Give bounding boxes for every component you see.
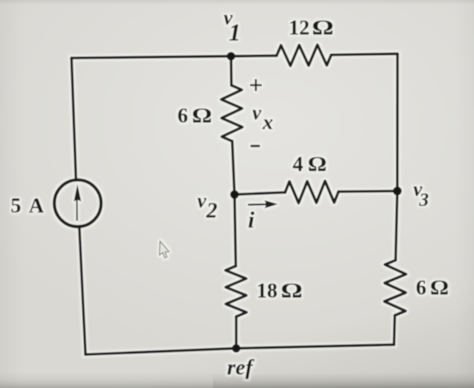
svg-text:2: 2 [205, 197, 217, 222]
svg-text:Ω: Ω [281, 279, 303, 302]
svg-text:ref: ref [227, 354, 255, 379]
wire left side lower (current source to BL corner) [79, 227, 85, 355]
node ref (dot) [232, 344, 241, 353]
wire 4-ohm right to node v3 [339, 190, 398, 193]
wire 18-ohm to ref node [235, 317, 238, 349]
resistor R2 6-ohm (middle vertical) [221, 85, 242, 141]
svg-text:i: i [248, 207, 255, 232]
current source arrow [74, 184, 81, 221]
current arrow i (near v2) [248, 200, 278, 208]
wire top-left segment (TL corner to node v1 to 12-ohm resistor) [72, 56, 277, 58]
resistor R1 12-ohm (top) [277, 45, 332, 66]
svg-text:Ω: Ω [312, 16, 334, 39]
label minus (vx polarity) [251, 145, 261, 147]
svg-text:Ω: Ω [192, 104, 212, 128]
svg-text:v: v [252, 102, 262, 124]
svg-text:1: 1 [229, 21, 241, 47]
resistor R3 4-ohm (middle horizontal) [285, 181, 338, 203]
svg-text:Ω: Ω [430, 276, 449, 300]
wire bottom rail (BL corner through ref node to BR corner) [86, 345, 395, 355]
mouse cursor [159, 241, 170, 258]
svg-text:x: x [262, 110, 274, 134]
node v1 (dot) [227, 52, 236, 61]
wire node v2 right to 4-ohm [235, 192, 286, 194]
svg-text:12: 12 [289, 16, 310, 40]
wire right 6-ohm to BR corner [393, 315, 397, 344]
wire left side upper (TL corner down to current source) [72, 58, 77, 180]
svg-text:3: 3 [418, 190, 429, 211]
wire 6-ohm down to node v2 [232, 141, 234, 194]
svg-text:4: 4 [293, 152, 304, 176]
wire node v2 down to 18-ohm [235, 195, 236, 267]
current source I1 5A (circle) [54, 180, 101, 227]
svg-text:+: + [249, 72, 263, 99]
wire middle branch upper (v1 down to 6-ohm) [230, 56, 233, 85]
wire node v3 down to right 6-ohm [396, 191, 398, 260]
svg-text:5 A: 5 A [11, 193, 46, 217]
svg-text:6: 6 [178, 104, 189, 128]
wire top-right segment (12-ohm to TR corner) [331, 54, 397, 55]
svg-text:6: 6 [416, 276, 427, 300]
resistor R5 6-ohm (right vertical) [384, 260, 406, 315]
node v3 (dot) [393, 187, 402, 196]
svg-text:18: 18 [257, 279, 278, 303]
svg-text:Ω: Ω [308, 152, 327, 175]
node v2 (dot) [230, 190, 239, 199]
resistor R4 18-ohm (lower middle vertical) [226, 266, 247, 317]
wire right side upper (TR corner down to node v3) [396, 54, 399, 191]
